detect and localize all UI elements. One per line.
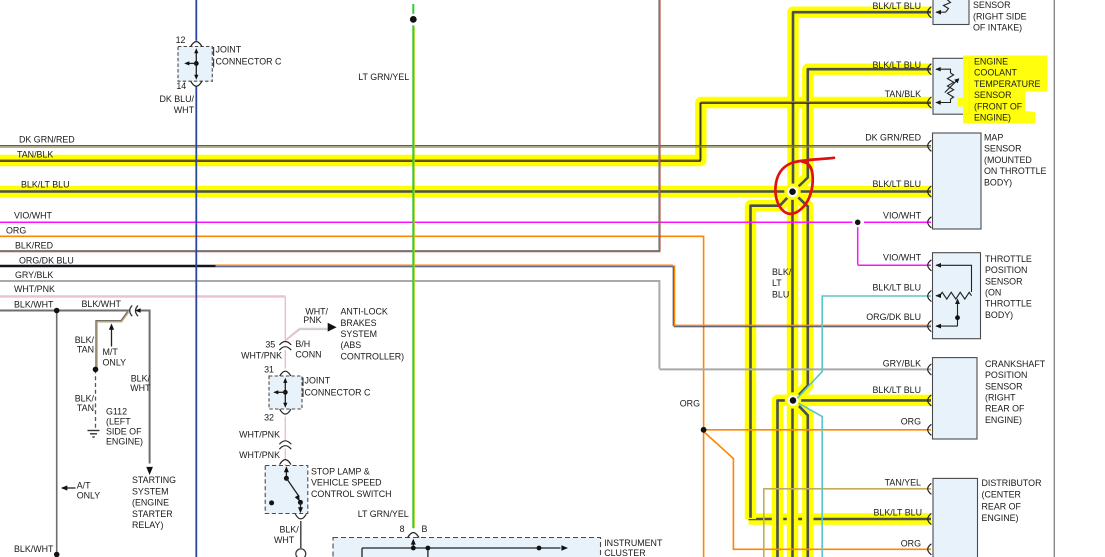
svg-text:8: 8 (400, 524, 405, 534)
svg-text:(RIGHT SIDE: (RIGHT SIDE (973, 11, 1027, 21)
svg-text:TAN: TAN (77, 344, 94, 354)
svg-text:BLK/LT BLU: BLK/LT BLU (872, 60, 921, 70)
svg-text:WHT: WHT (274, 535, 295, 545)
svg-text:SYSTEM: SYSTEM (341, 329, 378, 339)
svg-text:G112: G112 (106, 406, 127, 416)
svg-text:BODY): BODY) (985, 310, 1013, 320)
svg-text:COOLANT: COOLANT (974, 68, 1017, 78)
svg-text:SENSOR: SENSOR (973, 0, 1010, 10)
svg-text:DK BLU/: DK BLU/ (159, 94, 194, 104)
svg-text:31: 31 (264, 365, 274, 375)
svg-text:SENSOR: SENSOR (985, 276, 1022, 286)
svg-text:WHT: WHT (130, 383, 151, 393)
svg-text:GRY/BLK: GRY/BLK (883, 359, 921, 369)
svg-text:BLK/: BLK/ (75, 394, 95, 404)
svg-text:A/T: A/T (77, 481, 91, 491)
svg-text:PNK: PNK (303, 315, 321, 325)
svg-text:ORG: ORG (680, 399, 700, 409)
svg-text:BLK/LT BLU: BLK/LT BLU (872, 283, 921, 293)
svg-text:ON THROTTLE: ON THROTTLE (984, 166, 1047, 176)
svg-text:JOINT: JOINT (305, 376, 331, 386)
svg-text:CONN: CONN (295, 350, 321, 360)
svg-text:CLUSTER: CLUSTER (604, 548, 645, 557)
svg-text:BLK/LT BLU: BLK/LT BLU (872, 385, 921, 395)
svg-text:TEMPERATURE: TEMPERATURE (974, 79, 1040, 89)
svg-text:ORG: ORG (6, 225, 26, 235)
svg-text:(ABS: (ABS (341, 340, 362, 350)
svg-text:GRY/BLK: GRY/BLK (15, 270, 53, 280)
svg-text:WHT/PNK: WHT/PNK (14, 284, 55, 294)
svg-text:(ON: (ON (985, 288, 1001, 298)
svg-text:BLK/LT BLU: BLK/LT BLU (873, 508, 922, 518)
svg-text:BLK/: BLK/ (772, 267, 792, 277)
svg-text:B/H: B/H (295, 339, 310, 349)
svg-text:(RIGHT: (RIGHT (985, 393, 1016, 403)
svg-text:JOINT: JOINT (216, 44, 242, 54)
svg-text:M/T: M/T (103, 347, 119, 357)
svg-text:BLK/RED: BLK/RED (15, 241, 53, 251)
svg-text:ORG: ORG (901, 538, 921, 548)
svg-text:BLK/: BLK/ (279, 525, 299, 535)
svg-text:THROTTLE: THROTTLE (985, 299, 1032, 309)
svg-text:ORG/DK BLU: ORG/DK BLU (19, 256, 74, 266)
svg-text:LT GRN/YEL: LT GRN/YEL (358, 509, 409, 519)
svg-text:SYSTEM: SYSTEM (132, 486, 169, 496)
svg-text:STARTER: STARTER (132, 509, 173, 519)
svg-text:MAP: MAP (984, 133, 1003, 143)
svg-text:REAR OF: REAR OF (985, 404, 1025, 414)
svg-text:VIO/WHT: VIO/WHT (883, 211, 922, 221)
svg-text:12: 12 (176, 35, 186, 45)
svg-text:ONLY: ONLY (103, 357, 127, 367)
svg-text:ENGINE): ENGINE) (985, 415, 1022, 425)
svg-text:RELAY): RELAY) (132, 520, 163, 530)
svg-text:WHT/PNK: WHT/PNK (241, 351, 282, 361)
svg-text:CONTROL SWITCH: CONTROL SWITCH (311, 489, 392, 499)
svg-text:BLK/WHT: BLK/WHT (14, 544, 54, 554)
svg-text:ONLY: ONLY (77, 490, 101, 500)
svg-text:BLK/LT BLU: BLK/LT BLU (872, 179, 921, 189)
svg-text:POSITION: POSITION (985, 265, 1027, 275)
svg-text:DK GRN/RED: DK GRN/RED (865, 133, 921, 143)
svg-text:B: B (422, 524, 428, 534)
svg-text:CRANKSHAFT: CRANKSHAFT (985, 359, 1046, 369)
svg-text:ORG/DK BLU: ORG/DK BLU (866, 312, 921, 322)
svg-text:SENSOR: SENSOR (974, 90, 1011, 100)
svg-text:WHT: WHT (174, 105, 195, 115)
svg-text:TAN: TAN (77, 403, 94, 413)
svg-text:LT: LT (772, 278, 782, 288)
svg-text:(MOUNTED: (MOUNTED (984, 155, 1032, 165)
svg-text:DK GRN/RED: DK GRN/RED (19, 134, 75, 144)
svg-text:REAR OF: REAR OF (982, 501, 1022, 511)
svg-text:35: 35 (265, 340, 275, 350)
svg-text:BODY): BODY) (984, 177, 1012, 187)
svg-text:BLK/WHT: BLK/WHT (14, 300, 54, 310)
svg-text:BLK/LT BLU: BLK/LT BLU (872, 1, 921, 11)
svg-text:TAN/BLK: TAN/BLK (17, 150, 53, 160)
svg-text:ENGINE): ENGINE) (106, 436, 143, 446)
svg-text:SENSOR: SENSOR (985, 381, 1022, 391)
svg-text:DISTRIBUTOR: DISTRIBUTOR (982, 478, 1042, 488)
svg-text:SENSOR: SENSOR (984, 144, 1021, 154)
svg-text:VEHICLE SPEED: VEHICLE SPEED (311, 478, 382, 488)
svg-text:(FRONT OF: (FRONT OF (974, 101, 1023, 111)
svg-text:BLU: BLU (772, 289, 789, 299)
svg-text:CONNECTOR C: CONNECTOR C (216, 57, 282, 67)
svg-text:32: 32 (264, 413, 274, 423)
svg-text:TAN/BLK: TAN/BLK (885, 89, 921, 99)
svg-text:ORG: ORG (901, 417, 921, 427)
svg-text:TAN/YEL: TAN/YEL (885, 478, 921, 488)
svg-text:VIO/WHT: VIO/WHT (883, 253, 922, 263)
svg-text:WHT/PNK: WHT/PNK (239, 430, 280, 440)
svg-text:BLK/LT BLU: BLK/LT BLU (21, 180, 70, 190)
svg-text:WHT/PNK: WHT/PNK (239, 450, 280, 460)
svg-text:(ENGINE: (ENGINE (132, 498, 169, 508)
svg-text:ENGINE: ENGINE (974, 57, 1008, 67)
svg-text:ENGINE): ENGINE) (974, 113, 1011, 123)
svg-text:STOP LAMP &: STOP LAMP & (311, 467, 370, 477)
svg-text:THROTTLE: THROTTLE (985, 254, 1032, 264)
svg-text:POSITION: POSITION (985, 370, 1027, 380)
svg-text:ENGINE): ENGINE) (982, 513, 1019, 523)
svg-text:CONNECTOR C: CONNECTOR C (305, 388, 371, 398)
svg-text:OF INTAKE): OF INTAKE) (973, 23, 1022, 33)
svg-text:14: 14 (176, 81, 186, 91)
svg-text:STARTING: STARTING (132, 475, 176, 485)
svg-text:INSTRUMENT: INSTRUMENT (604, 538, 663, 548)
svg-text:VIO/WHT: VIO/WHT (14, 211, 53, 221)
svg-text:CONTROLLER): CONTROLLER) (341, 351, 405, 361)
svg-text:LT GRN/YEL: LT GRN/YEL (358, 72, 409, 82)
svg-text:SIDE OF: SIDE OF (106, 426, 142, 436)
svg-text:BLK/WHT: BLK/WHT (82, 299, 122, 309)
svg-text:BRAKES: BRAKES (341, 318, 377, 328)
svg-text:(LEFT: (LEFT (106, 416, 131, 426)
svg-text:(CENTER: (CENTER (982, 490, 1021, 500)
svg-text:ANTI-LOCK: ANTI-LOCK (341, 307, 388, 317)
